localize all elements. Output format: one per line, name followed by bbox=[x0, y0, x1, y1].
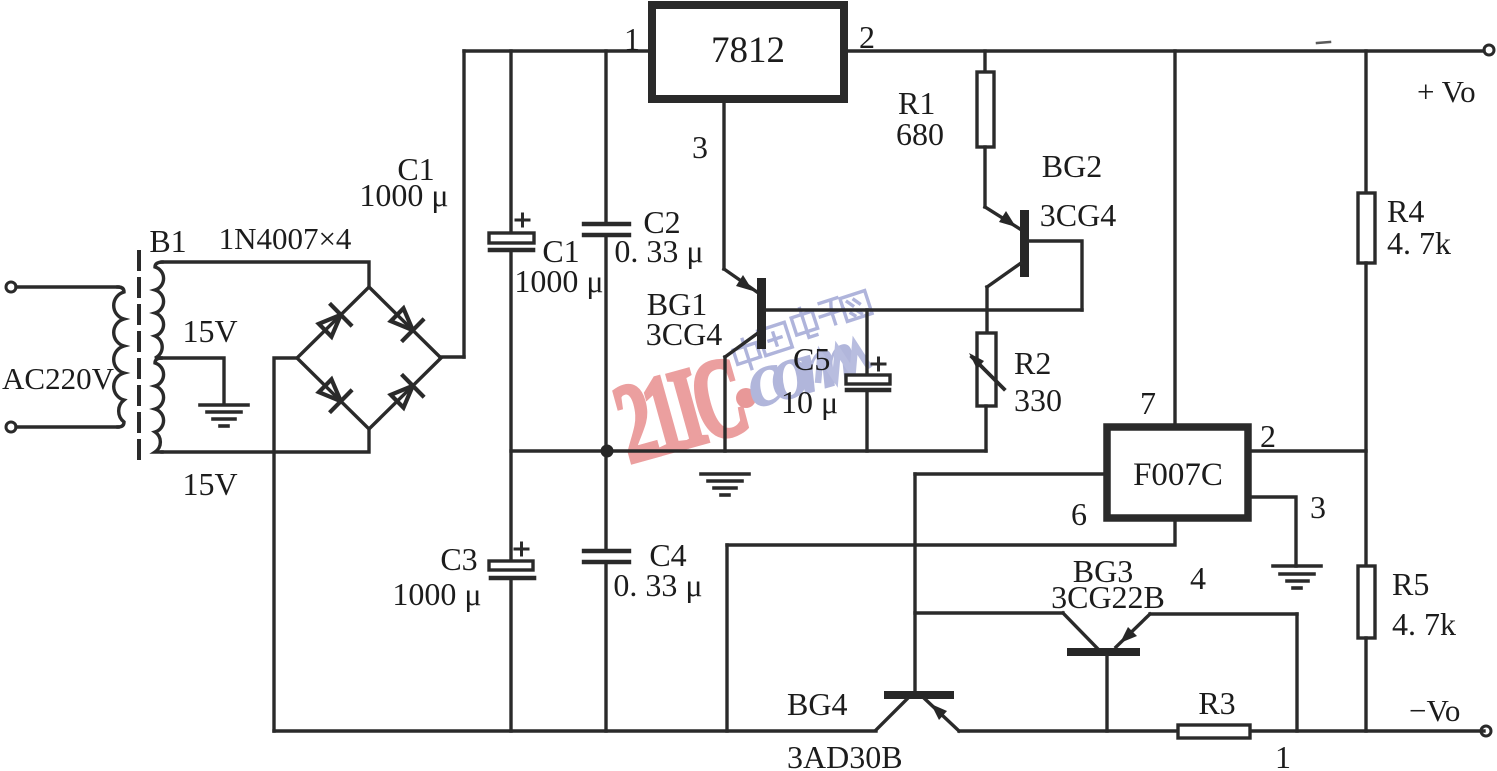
transistor BG2 collector bbox=[987, 263, 1021, 287]
svg-text:+ Vo: + Vo bbox=[1417, 74, 1476, 109]
wire: BG4 base column bbox=[913, 474, 916, 691]
transistor BG1 emitter bbox=[724, 269, 757, 292]
transistor BG4 emitter bbox=[925, 699, 959, 731]
wire: secondary bottom to bridge AC bottom bbox=[162, 429, 369, 452]
svg-text:680: 680 bbox=[896, 116, 944, 152]
svg-text:BG2: BG2 bbox=[1042, 148, 1102, 184]
wire: top +12V rail right of 7812 to +Vo terminal bbox=[844, 49, 1484, 52]
svg-text:3CG4: 3CG4 bbox=[646, 316, 722, 352]
svg-text:3CG4: 3CG4 bbox=[1040, 197, 1116, 233]
capacitor C3 plates bbox=[489, 561, 533, 570]
transistor BG3 base bar bbox=[1067, 648, 1140, 656]
capacitor C5 plus bbox=[872, 358, 885, 370]
svg-text:4. 7k: 4. 7k bbox=[1387, 225, 1451, 261]
capacitor C1 plates bbox=[489, 233, 534, 243]
resistor R1 top lead bbox=[983, 51, 986, 72]
wire: BG2 collector to R2 bbox=[985, 287, 988, 333]
resistor R2 bottom lead bbox=[984, 406, 987, 451]
ground at transformer center tap bbox=[200, 405, 248, 426]
7812 pin3 lead bbox=[722, 103, 725, 269]
scan speck above rail bbox=[1317, 42, 1330, 43]
svg-text:2: 2 bbox=[859, 19, 875, 55]
svg-text:4: 4 bbox=[1190, 560, 1206, 596]
wire: BG1 base to BG2 base-drop bbox=[766, 308, 1082, 311]
svg-text:1000 μ: 1000 μ bbox=[514, 263, 603, 299]
IC 7812 box bbox=[652, 5, 844, 99]
wire: F007C pin3 to ground bbox=[1251, 497, 1296, 566]
diode D3 bottom-left bbox=[315, 376, 350, 411]
wire: bottom rail right segment bbox=[959, 729, 1484, 732]
capacitor C1/C3 middle lead bbox=[509, 250, 512, 561]
watermark 21IC.com 中国电子网 bbox=[602, 291, 872, 488]
wire: pin6 rail drop to bottom rail bbox=[725, 545, 728, 731]
wire: pin4 net drop to bottom rail bbox=[1295, 614, 1298, 731]
transformer primary winding bbox=[114, 287, 124, 427]
svg-text:C5: C5 bbox=[793, 341, 830, 377]
transistor BG3 base lead bbox=[1105, 656, 1108, 731]
svg-text:3: 3 bbox=[692, 129, 708, 165]
svg-text:1: 1 bbox=[1275, 739, 1291, 771]
svg-text:3CG22B: 3CG22B bbox=[1051, 579, 1165, 615]
wire: top +12V rail left of 7812 bbox=[464, 49, 652, 52]
ground under rail bbox=[701, 474, 749, 495]
transistor BG2 emitter bbox=[985, 207, 1020, 229]
网 bbox=[840, 291, 872, 322]
transistor BG2 base bar bbox=[1020, 210, 1029, 277]
wire: secondary center tap bbox=[161, 358, 224, 402]
diode D2 top-right bbox=[387, 305, 422, 340]
capacitor C5 plates bbox=[846, 375, 890, 384]
svg-text:C3: C3 bbox=[440, 541, 477, 577]
svg-text:1000 μ: 1000 μ bbox=[359, 177, 448, 213]
svg-text:10 μ: 10 μ bbox=[781, 384, 838, 420]
transformer secondary winding bottom 15V bbox=[155, 358, 164, 452]
resistor R1 bottom lead bbox=[983, 147, 986, 207]
wire: bridge right vertex to vertical bbox=[440, 355, 464, 358]
svg-text:R5: R5 bbox=[1392, 566, 1429, 602]
svg-text:BG4: BG4 bbox=[787, 686, 847, 722]
potentiometer R2 wiper arrow bbox=[972, 357, 1004, 389]
transistor BG2 base wire bbox=[1029, 241, 1082, 310]
中 bbox=[730, 334, 763, 374]
wire: bottom rail left segment bbox=[274, 729, 876, 732]
svg-text:−Vo: −Vo bbox=[1409, 693, 1460, 728]
transistor BG4 base bar bbox=[884, 691, 954, 699]
wire: F007C left input to BG4 base column bbox=[915, 472, 1106, 475]
transistor BG4 collector bbox=[876, 699, 907, 730]
diode D4 bottom-right bbox=[387, 376, 422, 411]
transformer B1 primary top wire bbox=[16, 285, 118, 288]
capacitor C3 bottom lead bbox=[509, 578, 512, 731]
wire: F007C pin6 down and left bbox=[727, 521, 1175, 545]
diode D1 top-left bbox=[315, 305, 350, 340]
F007C box bbox=[1107, 427, 1248, 518]
svg-text:R3: R3 bbox=[1198, 685, 1235, 721]
resistor R1 body bbox=[977, 72, 994, 147]
resistor R3 body on bottom rail bbox=[1178, 725, 1250, 738]
svg-text:0. 33 μ: 0. 33 μ bbox=[613, 567, 702, 603]
resistor R5 body bbox=[1358, 566, 1375, 638]
wire: F007C pin2 to R4/R5 column bbox=[1251, 449, 1366, 452]
wire: vertical from top rail down to bridge + output bbox=[462, 51, 465, 357]
svg-text:F007C: F007C bbox=[1133, 457, 1223, 493]
国 bbox=[758, 322, 793, 355]
ground rail under BG1/C5/R2 bbox=[511, 449, 986, 452]
svg-text:3AD30B: 3AD30B bbox=[787, 739, 903, 771]
子 bbox=[815, 296, 850, 329]
svg-text:7812: 7812 bbox=[711, 30, 785, 71]
potentiometer R2 body bbox=[977, 333, 996, 406]
wire: R4 bottom to R5 top bbox=[1364, 263, 1367, 566]
capacitor C5 top lead bbox=[865, 310, 868, 375]
svg-text:15V: 15V bbox=[182, 313, 237, 349]
resistor R4 body bbox=[1358, 193, 1375, 263]
svg-text:1N4007×4: 1N4007×4 bbox=[219, 221, 352, 256]
transistor BG3 emitter bbox=[1116, 614, 1150, 647]
transformer secondary winding top 15V bbox=[155, 262, 164, 358]
svg-text:330: 330 bbox=[1014, 382, 1062, 418]
svg-text:15V: 15V bbox=[182, 466, 237, 502]
svg-text:B1: B1 bbox=[149, 223, 186, 259]
wire: bridge - output down the left column bbox=[274, 358, 297, 731]
transistor BG3 collector bbox=[1063, 613, 1097, 648]
svg-text:AC220V: AC220V bbox=[2, 361, 115, 396]
terminal +Vo bbox=[1484, 45, 1494, 55]
capacitor C2 plates bbox=[584, 222, 629, 226]
wire: pin4 net horizontal bbox=[915, 611, 1063, 614]
bridge rectifier diamond 1N4007x4 bbox=[297, 287, 441, 429]
transistor BG1 collector bbox=[725, 333, 758, 357]
svg-text:R2: R2 bbox=[1014, 345, 1051, 381]
transformer core dashed line bbox=[137, 252, 141, 466]
capacitor C2 bottom lead to ground rail bbox=[604, 235, 607, 451]
capacitor C4 bottom lead bbox=[604, 562, 607, 731]
svg-text:4. 7k: 4. 7k bbox=[1392, 606, 1456, 642]
capacitor C1 plus bbox=[516, 214, 529, 226]
capacitor C1 lead bbox=[509, 51, 512, 234]
wire: secondary top to bridge AC top bbox=[162, 262, 369, 287]
terminal -Vo bbox=[1481, 726, 1491, 736]
terminal AC input bottom bbox=[6, 422, 16, 432]
capacitor C4 top lead bbox=[604, 451, 607, 551]
capacitor C5 bottom lead bbox=[865, 390, 868, 451]
resistor R4 top lead bbox=[1364, 51, 1367, 193]
svg-text:3: 3 bbox=[1310, 489, 1326, 525]
wire: F007C pin7 from top rail bbox=[1173, 51, 1176, 425]
transformer B1 primary bottom wire bbox=[16, 425, 118, 428]
capacitor C3 plus bbox=[515, 543, 528, 555]
junction dot bbox=[601, 445, 614, 458]
svg-text:7: 7 bbox=[1140, 385, 1156, 421]
svg-text:R4: R4 bbox=[1387, 193, 1424, 229]
resistor R5 bottom lead bbox=[1364, 638, 1367, 731]
capacitor C2 top lead bbox=[604, 51, 607, 224]
svg-text:2: 2 bbox=[1260, 418, 1276, 454]
svg-text:1: 1 bbox=[624, 21, 640, 57]
transistor BG1 base bar bbox=[757, 278, 766, 349]
terminal AC input top bbox=[6, 282, 16, 292]
svg-text:0. 33 μ: 0. 33 μ bbox=[614, 233, 703, 269]
电 bbox=[789, 304, 820, 341]
capacitor C4 plates bbox=[584, 549, 629, 553]
ground at F007C pin3 bbox=[1273, 566, 1321, 588]
svg-text:1000 μ: 1000 μ bbox=[392, 576, 481, 612]
wire: BG1 collector to ground rail bbox=[723, 357, 726, 451]
svg-text:6: 6 bbox=[1071, 496, 1087, 532]
